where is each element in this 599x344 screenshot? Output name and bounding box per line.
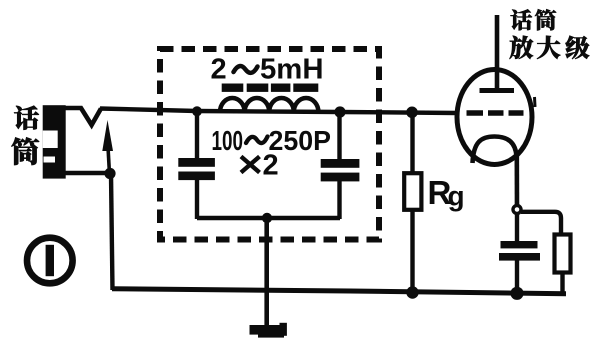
figure number: circled 1: [27, 238, 73, 284]
wire: Rk bottom lead: [560, 272, 564, 294]
tube cathode dome: [473, 137, 517, 164]
tube grid (dashed): [467, 110, 524, 116]
label: x2: [241, 150, 279, 182]
label: 100~250P: [212, 125, 332, 156]
svg-text:2: 2: [211, 54, 227, 86]
wire: cathode to Rk: [521, 212, 561, 235]
label: microphone 话筒 (left): [11, 106, 39, 165]
junction node A (left of L1): [192, 106, 202, 116]
svg-text:2: 2: [263, 150, 279, 182]
junction node: Rg bottom on bus: [406, 286, 418, 298]
resistor Rg: [404, 112, 421, 294]
capacitor C2 (right): [321, 112, 360, 219]
tube V1 envelope: [457, 70, 532, 165]
ground symbol: [250, 323, 287, 338]
wire: left drop to ground bus: [111, 174, 113, 290]
tube envelope tick: [533, 97, 537, 107]
label: Rg: [428, 174, 465, 212]
inductor L1 iron core (dashed bar): [222, 84, 319, 92]
tube plate: [480, 88, 515, 93]
label: 2~5mH: [211, 54, 324, 86]
capacitor Ck (cathode bypass): [499, 213, 540, 294]
wire: bottom ground bus: [112, 289, 566, 294]
jack plug tip arrow: [102, 120, 113, 174]
wire: jack sleeve lead: [58, 171, 110, 176]
wire: inner bottom (C1 to C2): [197, 216, 340, 220]
svg-text:100: 100: [212, 125, 244, 156]
svg-text:g: g: [448, 181, 465, 212]
wire: center drop to ground: [264, 218, 269, 327]
junction node center bottom: [262, 213, 272, 223]
jack tip contact spring (V): [63, 108, 101, 125]
label: 话筒放大级 (top right): [509, 9, 589, 59]
tube plate lead: [495, 15, 500, 89]
inductor L1 winding: [220, 98, 318, 112]
jack J1 plug body: [43, 105, 66, 178]
junction node B (right of L1): [334, 106, 345, 117]
junction node: grid / Rg: [406, 107, 418, 119]
junction node: cathode (open ring): [513, 206, 521, 214]
junction node: Ck bottom on bus: [510, 287, 523, 300]
capacitor C1 (left): [178, 111, 215, 219]
wire: cathode lead down: [514, 153, 519, 210]
svg-text:5mH: 5mH: [260, 54, 324, 86]
wire: main signal wire to tube grid: [100, 109, 457, 114]
junction node: jack/ground branch: [104, 168, 115, 179]
dashed filter box: [160, 49, 379, 240]
resistor Rk body: [555, 235, 571, 273]
